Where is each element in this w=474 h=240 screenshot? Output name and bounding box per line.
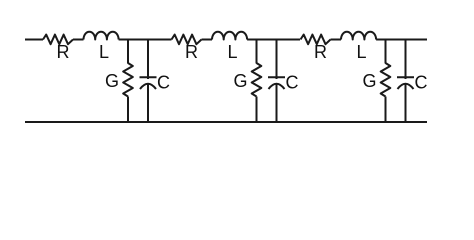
- svg-text:R: R: [57, 42, 70, 62]
- inductor L3: [341, 32, 376, 40]
- svg-text:G: G: [363, 71, 377, 91]
- resistor R1: [43, 35, 73, 45]
- resistor G3: [381, 63, 391, 97]
- resistor R3: [301, 35, 331, 45]
- wire: [247, 39, 300, 41]
- resistor R2: [172, 35, 202, 45]
- svg-text:R: R: [185, 42, 198, 62]
- wire: [405, 85, 407, 123]
- resistor G1: [123, 63, 133, 97]
- wire: [147, 40, 149, 80]
- svg-text:L: L: [99, 42, 109, 62]
- capacitor C1: [140, 77, 157, 89]
- svg-text:C: C: [286, 73, 299, 93]
- svg-text:G: G: [234, 71, 248, 91]
- wire: [256, 40, 258, 64]
- svg-text:L: L: [228, 42, 238, 62]
- wire: [331, 39, 342, 41]
- wire: [256, 97, 258, 123]
- inductor L1: [84, 32, 119, 40]
- wire: [127, 40, 129, 64]
- inductor L2: [212, 32, 247, 40]
- svg-text:R: R: [314, 42, 327, 62]
- wire: [276, 40, 278, 80]
- capacitor C2: [268, 77, 285, 89]
- wire: [25, 121, 427, 123]
- wire: [385, 97, 387, 123]
- svg-text:C: C: [415, 73, 428, 93]
- wire: [119, 39, 172, 41]
- wire: [405, 40, 407, 80]
- wire: [127, 97, 129, 123]
- svg-text:L: L: [357, 42, 367, 62]
- svg-text:G: G: [105, 71, 119, 91]
- resistor G2: [252, 63, 262, 97]
- wire: [147, 85, 149, 123]
- wire: [276, 85, 278, 123]
- wire: [73, 39, 84, 41]
- capacitor C3: [397, 77, 414, 89]
- wire: [385, 40, 387, 64]
- wire: [376, 39, 427, 41]
- wire: [202, 39, 213, 41]
- svg-text:C: C: [157, 73, 170, 93]
- wire: [25, 39, 43, 41]
